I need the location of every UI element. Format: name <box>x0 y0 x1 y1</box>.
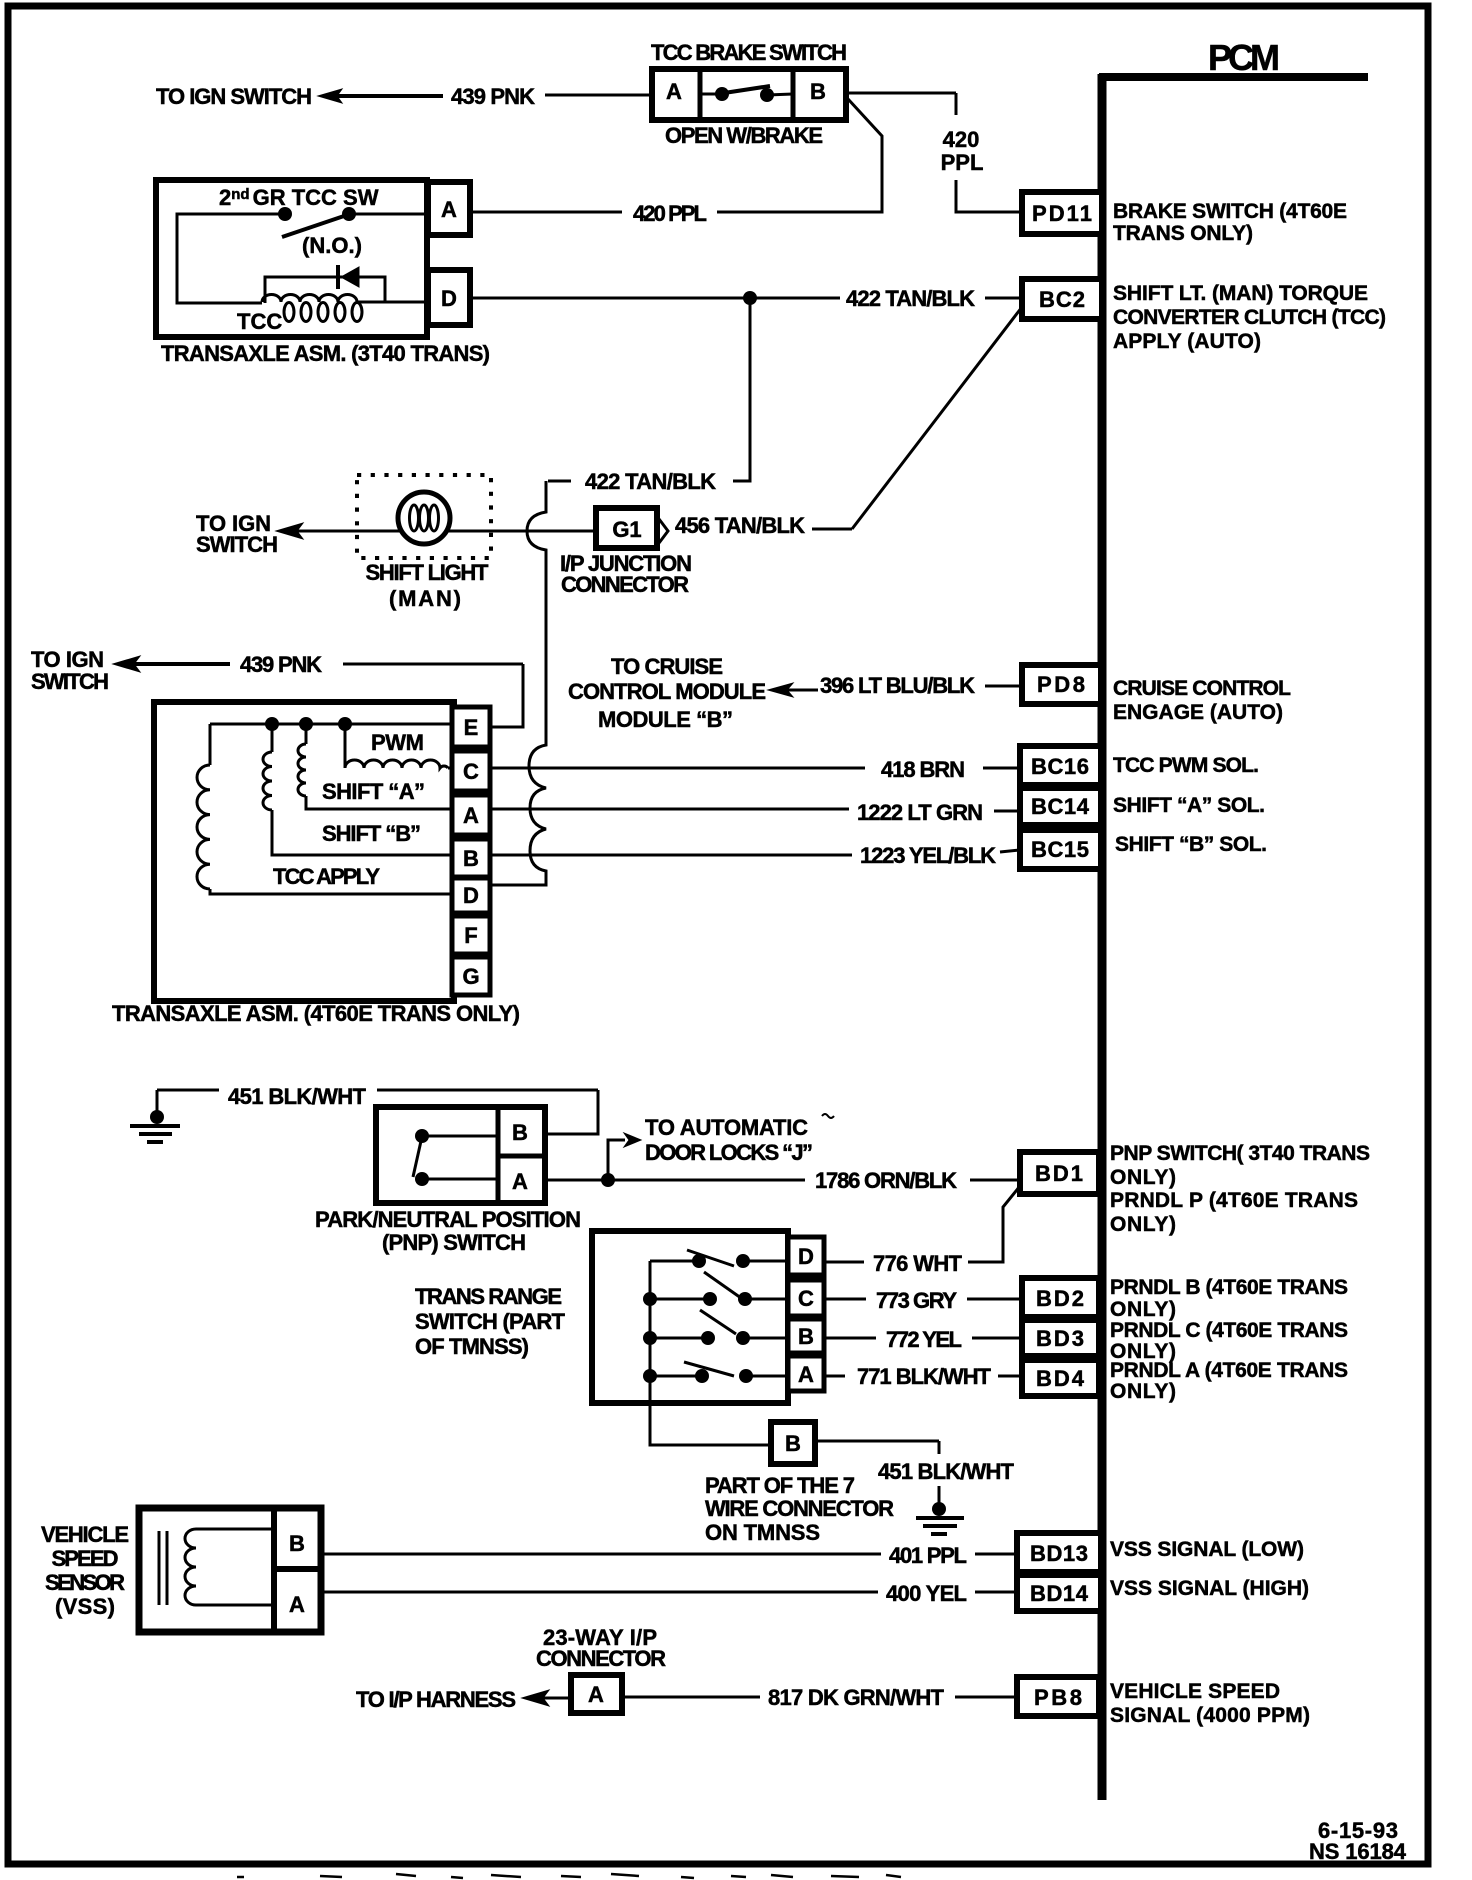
svg-text:BD2: BD2 <box>1036 1286 1084 1311</box>
inductor SHIFT A solenoid (right coil) <box>298 724 452 809</box>
svg-text:PWM: PWM <box>371 730 424 755</box>
svg-text:ENGAGE (AUTO): ENGAGE (AUTO) <box>1113 701 1283 724</box>
svg-text:BC16: BC16 <box>1031 754 1089 779</box>
svg-text:PARK/NEUTRAL POSITION: PARK/NEUTRAL POSITION <box>315 1207 581 1232</box>
svg-text:451 BLK/WHT: 451 BLK/WHT <box>228 1084 367 1109</box>
svg-text:TRANS ONLY): TRANS ONLY) <box>1113 222 1253 245</box>
ground G401 (left) <box>130 1090 180 1142</box>
svg-text:PART OF THE 7: PART OF THE 7 <box>705 1473 855 1498</box>
diode D1 (across TCC solenoid) <box>265 265 385 303</box>
junction dot door locks branch <box>601 1173 615 1187</box>
svg-text:ON TMNSS: ON TMNSS <box>705 1520 820 1545</box>
label 422 TAN/BLK (upper) <box>846 286 975 311</box>
component 4T60E transaxle solenoid block <box>154 702 454 1001</box>
svg-text:SPEED: SPEED <box>52 1546 119 1571</box>
wire 1223 YEL/BLK pin B to BC15 <box>490 850 1020 855</box>
switch PNP park/neutral position <box>376 1107 545 1203</box>
svg-text:420: 420 <box>943 127 980 152</box>
svg-text:BD13: BD13 <box>1030 1541 1088 1566</box>
connector pin BC2 <box>1022 279 1102 319</box>
svg-text:C: C <box>463 759 479 784</box>
wire 817 DK GRN/WHT to PB8 <box>622 1696 1017 1699</box>
svg-text:771 BLK/WHT: 771 BLK/WHT <box>857 1364 992 1389</box>
connector G1 I/P junction <box>596 508 668 548</box>
label 451 BLK/WHT (lower) <box>878 1459 1015 1484</box>
svg-text:SWITCH (PART: SWITCH (PART <box>415 1309 566 1334</box>
label 400 YEL <box>886 1581 967 1606</box>
wire 400 YEL VSS pin A to BD14 <box>321 1591 1017 1594</box>
label VEHICLE SPEED SENSOR (VSS) <box>41 1522 129 1619</box>
label PNP SWITCH / PRNDL P <box>1110 1142 1370 1236</box>
svg-text:DOOR LOCKS “J”: DOOR LOCKS “J” <box>645 1140 813 1165</box>
label 439 PNK (middle) <box>240 652 322 677</box>
ground G402 (lower) <box>916 1502 964 1534</box>
svg-text:WIRE CONNECTOR: WIRE CONNECTOR <box>705 1496 894 1521</box>
svg-text:400 YEL: 400 YEL <box>886 1581 967 1606</box>
svg-text:1222 LT GRN: 1222 LT GRN <box>857 800 983 825</box>
label 456 TAN/BLK <box>675 513 805 538</box>
connector pin BC14 <box>1020 788 1101 825</box>
switch S1 TCC BRAKE SWITCH <box>651 40 847 148</box>
svg-text:BD3: BD3 <box>1036 1326 1084 1351</box>
label BRAKE SWITCH (4T60E TRANS ONLY) <box>1113 200 1347 245</box>
connector pin A (3T40) <box>428 182 470 235</box>
label PRNDL B / PRNDL C / PRNDL A <box>1110 1276 1348 1403</box>
svg-text:A: A <box>798 1362 814 1387</box>
junction dots on rail <box>265 717 352 731</box>
connector pin A (TMNSS) <box>788 1356 824 1391</box>
svg-text:TRANSAXLE ASM. (4T60E TRANS ON: TRANSAXLE ASM. (4T60E TRANS ONLY) <box>112 1001 520 1026</box>
lamp shift light bulb <box>398 492 450 544</box>
label 420 PPL (pin A wire) <box>633 201 707 226</box>
svg-text:OPEN W/BRAKE: OPEN W/BRAKE <box>665 123 823 148</box>
wire shift light feed with arrow <box>276 523 596 539</box>
label TO IGN SWITCH (shift light) <box>196 511 278 557</box>
connector pin A (4T60E) <box>452 795 490 835</box>
svg-text:NS 16184: NS 16184 <box>1309 1839 1407 1864</box>
label VEHICLE SPEED SIGNAL (4000 PPM) <box>1110 1680 1310 1727</box>
label PARK/NEUTRAL POSITION (PNP) SWITCH <box>315 1207 581 1255</box>
svg-text:439 PNK: 439 PNK <box>451 84 535 109</box>
connector pin C (4T60E) <box>452 751 490 791</box>
label TO I/P HARNESS <box>356 1687 516 1712</box>
label TO CRUISE CONTROL MODULE MODULE B <box>568 654 766 732</box>
connector pin BC16 <box>1020 746 1101 785</box>
svg-text:776 WHT: 776 WHT <box>873 1251 963 1276</box>
connector pin BD13 <box>1017 1533 1101 1572</box>
wire 776 WHT from pin D <box>824 1261 983 1264</box>
wire 422 TAN/BLK from pin D to BC2 <box>470 297 1022 300</box>
connector pin BC15 <box>1020 830 1101 869</box>
svg-text:ONLY): ONLY) <box>1110 1380 1176 1403</box>
connector pin C (TMNSS) <box>788 1280 824 1316</box>
svg-text:TCC BRAKE SWITCH: TCC BRAKE SWITCH <box>651 40 847 65</box>
svg-text:B: B <box>289 1531 305 1556</box>
svg-text:1786 ORN/BLK: 1786 ORN/BLK <box>815 1168 957 1193</box>
connector pin B (TMNSS) <box>788 1319 824 1353</box>
svg-text:C: C <box>798 1286 814 1311</box>
svg-text:817 DK GRN/WHT: 817 DK GRN/WHT <box>768 1685 945 1710</box>
svg-text:CONNECTOR: CONNECTOR <box>561 572 689 597</box>
svg-text:CRUISE CONTROL: CRUISE CONTROL <box>1113 677 1291 700</box>
wire 776 WHT to BD1 via diagonal <box>983 1186 1020 1262</box>
svg-text:D: D <box>798 1244 814 1269</box>
svg-text:422 TAN/BLK: 422 TAN/BLK <box>585 469 716 494</box>
svg-text:VSS SIGNAL (LOW): VSS SIGNAL (LOW) <box>1110 1538 1304 1561</box>
label SHIFT LIGHT (MAN) <box>366 560 490 611</box>
label 772 YEL <box>886 1327 962 1352</box>
svg-text:TCC APPLY: TCC APPLY <box>273 864 380 889</box>
svg-text:PRNDL B (4T60E TRANS: PRNDL B (4T60E TRANS <box>1110 1276 1348 1299</box>
svg-text:VEHICLE: VEHICLE <box>41 1522 129 1547</box>
svg-text:396 LT BLU/BLK: 396 LT BLU/BLK <box>820 673 975 698</box>
svg-text:SWITCH: SWITCH <box>196 532 278 557</box>
svg-text:BC2: BC2 <box>1039 287 1085 312</box>
label TO AUTOMATIC DOOR LOCKS J <box>645 1114 834 1165</box>
svg-text:G1: G1 <box>612 517 641 542</box>
label PART OF THE 7 WIRE CONNECTOR ON TMNSS <box>705 1473 894 1545</box>
wire 773 GRY from pin C to BD2 <box>824 1298 1022 1301</box>
svg-text:(VSS): (VSS) <box>55 1594 115 1619</box>
svg-text:451 BLK/WHT: 451 BLK/WHT <box>878 1459 1015 1484</box>
PCM top line <box>1099 73 1368 81</box>
wire 772 YEL from pin B to BD3 <box>824 1337 1022 1340</box>
component VSS vehicle speed sensor <box>139 1508 321 1632</box>
junction dots on TMNSS bus <box>643 1292 657 1383</box>
label 439 PNK (top) <box>451 84 535 109</box>
switch row B contacts <box>650 1310 788 1345</box>
wire branch to automatic door locks with arrow <box>608 1133 641 1180</box>
svg-text:SWITCH: SWITCH <box>31 669 109 694</box>
connector pin BD1 <box>1020 1152 1099 1194</box>
PCM left vertical bus line <box>1098 74 1107 1800</box>
svg-text:BC14: BC14 <box>1031 794 1090 819</box>
svg-text:ONLY): ONLY) <box>1110 1298 1176 1321</box>
svg-text:ONLY): ONLY) <box>1110 1166 1176 1189</box>
svg-text:A: A <box>289 1592 305 1617</box>
svg-text:(N.O.): (N.O.) <box>302 233 362 258</box>
wire 420 PPL from pin A to junction <box>470 211 882 214</box>
label TRANS RANGE SWITCH (PART OF TMNSS) <box>415 1284 566 1359</box>
svg-text:ONLY): ONLY) <box>1110 1213 1176 1236</box>
svg-text:SHIFT “B”: SHIFT “B” <box>322 821 421 846</box>
svg-text:SHIFT “B” SOL.: SHIFT “B” SOL. <box>1115 833 1267 856</box>
connector pin PD8 <box>1022 665 1101 704</box>
connector pin BD14 <box>1017 1575 1101 1611</box>
label 420 PPL (vertical wire) <box>941 127 984 175</box>
label 451 BLK/WHT (upper) <box>228 1084 367 1109</box>
svg-text:456 TAN/BLK: 456 TAN/BLK <box>675 513 805 538</box>
label 817 DK GRN/WHT <box>768 1685 945 1710</box>
connector pin D (4T60E) <box>452 878 490 913</box>
label CRUISE CONTROL ENGAGE (AUTO) <box>1113 677 1291 724</box>
switch row C contacts <box>650 1272 788 1306</box>
svg-text:VEHICLE SPEED: VEHICLE SPEED <box>1110 1680 1280 1703</box>
junction dot 422 TAN/BLK <box>743 291 757 305</box>
svg-text:772 YEL: 772 YEL <box>886 1327 962 1352</box>
wire 439 PNK feed to 4T60E pin E <box>113 656 523 727</box>
label TCC PWM SOL. <box>1113 754 1259 777</box>
svg-text:773 GRY: 773 GRY <box>876 1288 957 1313</box>
connector pin B (4T60E) <box>452 839 490 877</box>
label I/P JUNCTION CONNECTOR <box>560 551 692 597</box>
inductor TCC solenoid coil (3T40) <box>237 295 428 334</box>
inductor TCC APPLY solenoid (left coil) <box>197 724 452 894</box>
label VSS SIGNAL (HIGH) <box>1110 1577 1309 1600</box>
svg-text:A: A <box>588 1682 604 1707</box>
svg-text:CONTROL MODULE: CONTROL MODULE <box>568 679 766 704</box>
connector pin B (7-wire TMNSS connector) <box>771 1422 815 1464</box>
svg-text:B: B <box>512 1120 528 1145</box>
svg-text:G: G <box>462 964 479 989</box>
svg-text:PCM: PCM <box>1208 37 1280 78</box>
label date 6-15-93 <box>1318 1818 1398 1843</box>
switch contacts 2nd GR TCC SW <box>278 207 362 258</box>
label 1222 LT GRN <box>857 800 983 825</box>
svg-text:SIGNAL (4000 PPM): SIGNAL (4000 PPM) <box>1110 1704 1310 1727</box>
svg-text:BD1: BD1 <box>1035 1161 1083 1186</box>
svg-text:PPL: PPL <box>941 150 984 175</box>
svg-text:401 PPL: 401 PPL <box>889 1543 967 1568</box>
svg-text:418 BRN: 418 BRN <box>881 757 965 782</box>
svg-text:BD14: BD14 <box>1030 1581 1089 1606</box>
dashed box shift light (instrument cluster) <box>357 475 491 558</box>
wire 422 TAN/BLK vertical with crossover hops <box>490 481 546 885</box>
svg-text:A: A <box>512 1169 528 1194</box>
svg-text:TO I/P HARNESS: TO I/P HARNESS <box>356 1687 516 1712</box>
wire 422 TAN/BLK branch down to shift light net <box>548 298 750 481</box>
svg-text:(MAN): (MAN) <box>389 586 461 611</box>
wire to I/P harness with arrow <box>522 1690 571 1706</box>
label TRANSAXLE ASM. (4T60E TRANS ONLY) <box>112 1001 520 1026</box>
label 773 GRY <box>876 1288 957 1313</box>
svg-text:A: A <box>666 79 682 104</box>
svg-text:PNP SWITCH( 3T40 TRANS: PNP SWITCH( 3T40 TRANS <box>1110 1142 1370 1165</box>
svg-text:MODULE “B”: MODULE “B” <box>598 707 733 732</box>
svg-text:PRNDL P (4T60E TRANS: PRNDL P (4T60E TRANS <box>1110 1189 1358 1212</box>
component trans range switch (TMNSS) <box>592 1231 788 1403</box>
svg-text:CONVERTER CLUTCH (TCC): CONVERTER CLUTCH (TCC) <box>1113 306 1386 329</box>
svg-text:420 PPL: 420 PPL <box>633 201 707 226</box>
wire 418 BRN pin C to BC16 <box>490 767 1020 770</box>
label 401 PPL <box>889 1543 967 1568</box>
label VSS SIGNAL (LOW) <box>1110 1538 1304 1561</box>
svg-text:BD4: BD4 <box>1036 1366 1085 1391</box>
wire 1786 ORN/BLK pin A to BD1 <box>545 1179 1020 1182</box>
wire feed rail inside 4T60E <box>210 723 452 726</box>
cropped caption fragments below border <box>237 1874 901 1878</box>
switch row D contacts <box>650 1250 788 1268</box>
label TO IGN SWITCH (top) <box>156 84 312 109</box>
magnet core lines VSS <box>159 1531 167 1605</box>
label 771 BLK/WHT <box>857 1364 992 1389</box>
svg-text:A: A <box>441 197 457 222</box>
svg-text:BRAKE SWITCH (4T60E: BRAKE SWITCH (4T60E <box>1113 200 1347 223</box>
svg-text:439 PNK: 439 PNK <box>240 652 322 677</box>
svg-text:TCC: TCC <box>237 309 282 334</box>
svg-text:TRANSAXLE ASM. (3T40 TRANS): TRANSAXLE ASM. (3T40 TRANS) <box>161 341 490 366</box>
component 2nd GR TCC SW / TCC solenoid (3T40 transaxle) <box>156 180 427 337</box>
connector pin PB8 <box>1017 1677 1099 1716</box>
connector pin G (4T60E) <box>452 957 490 995</box>
wire 451 BLK/WHT to PNP pin B <box>157 1090 598 1134</box>
svg-text:B: B <box>785 1431 801 1456</box>
svg-text:SHIFT LIGHT: SHIFT LIGHT <box>366 560 490 585</box>
label SHIFT A SOL. <box>1113 794 1265 817</box>
PCM label <box>1208 37 1280 78</box>
svg-text:APPLY (AUTO): APPLY (AUTO) <box>1113 330 1261 353</box>
label 422 TAN/BLK (lower) <box>585 469 716 494</box>
svg-text:(PNP) SWITCH: (PNP) SWITCH <box>382 1230 526 1255</box>
wire 396 LT BLU/BLK with arrow <box>768 683 1022 697</box>
svg-text:PRNDL A (4T60E TRANS: PRNDL A (4T60E TRANS <box>1110 1359 1348 1382</box>
svg-text:D: D <box>441 286 457 311</box>
svg-text:B: B <box>463 846 479 871</box>
wire diagonal from brake switch B down to 420 PPL run <box>840 99 882 212</box>
label 776 WHT <box>873 1251 963 1276</box>
svg-text:BC15: BC15 <box>1031 837 1089 862</box>
connector pin E (4T60E) <box>452 707 490 747</box>
connector pin PD11 <box>1022 192 1102 234</box>
svg-text:PD11: PD11 <box>1032 201 1092 226</box>
connector pin D (3T40) <box>428 270 470 325</box>
svg-text:PRNDL C (4T60E TRANS: PRNDL C (4T60E TRANS <box>1110 1319 1348 1342</box>
svg-text:TO IGN SWITCH: TO IGN SWITCH <box>156 84 312 109</box>
svg-text:D: D <box>463 883 479 908</box>
inductor SHIFT B solenoid (middle coil) <box>263 724 452 855</box>
label 396 LT BLU/BLK <box>820 673 975 698</box>
label NS 16184 <box>1309 1839 1407 1864</box>
label 1786 ORN/BLK <box>815 1168 957 1193</box>
svg-text:B: B <box>798 1324 814 1349</box>
connector pin BD4 <box>1022 1360 1099 1396</box>
wire 771 BLK/WHT from pin A to BD4 <box>824 1375 1022 1378</box>
connector pin A (23-way I/P) <box>571 1675 622 1713</box>
svg-text:A: A <box>463 803 479 828</box>
connector pin F (4T60E) <box>452 916 490 954</box>
wire 456 TAN/BLK diagonal to BC2 <box>812 307 1022 529</box>
svg-text:SENSOR: SENSOR <box>45 1570 125 1595</box>
svg-text:SHIFT “A” SOL.: SHIFT “A” SOL. <box>1113 794 1265 817</box>
label 1223 YEL/BLK <box>860 843 996 868</box>
wire 2nd GR switch to pin A <box>349 213 428 216</box>
connector pin BD2 <box>1022 1278 1099 1317</box>
svg-text:TRANS RANGE: TRANS RANGE <box>415 1284 562 1309</box>
svg-text:SHIFT “A”: SHIFT “A” <box>322 779 425 804</box>
svg-text:SHIFT LT. (MAN) TORQUE: SHIFT LT. (MAN) TORQUE <box>1113 282 1368 305</box>
label 23-WAY I/P CONNECTOR <box>536 1625 666 1671</box>
inductor VSS pickup coil <box>185 1529 274 1605</box>
label TO IGN SWITCH (439 PNK middle) <box>31 647 109 694</box>
svg-text:TCC PWM SOL.: TCC PWM SOL. <box>1113 754 1259 777</box>
svg-text:CONNECTOR: CONNECTOR <box>536 1646 666 1671</box>
label SHIFT B SOL. <box>1115 833 1267 856</box>
connector pin BD3 <box>1022 1320 1099 1356</box>
wire 401 PPL VSS pin B to BD13 <box>321 1553 1017 1556</box>
svg-text:F: F <box>464 923 477 948</box>
wire ground bus inside TMNSS <box>650 1261 771 1445</box>
label SHIFT LT. (MAN) TORQUE CONVERTER CLUTCH (TCC) APPLY (AUTO) <box>1113 282 1386 353</box>
wire 439 PNK to ign switch (top) <box>318 89 652 103</box>
svg-text:E: E <box>464 715 479 740</box>
svg-text:VSS SIGNAL (HIGH): VSS SIGNAL (HIGH) <box>1110 1577 1309 1600</box>
inductor TCC PWM solenoid (horizontal coil) <box>345 724 452 768</box>
wire left loop inside 3T40 box <box>177 214 285 303</box>
label TRANSAXLE ASM. (3T40 TRANS) <box>161 341 490 366</box>
connector pin D (TMNSS) <box>788 1237 824 1275</box>
label 418 BRN <box>881 757 965 782</box>
svg-text:TO AUTOMATIC: TO AUTOMATIC <box>645 1115 808 1140</box>
svg-text:1223 YEL/BLK: 1223 YEL/BLK <box>860 843 996 868</box>
svg-text:TO CRUISE: TO CRUISE <box>611 654 723 679</box>
svg-text:PB8: PB8 <box>1034 1685 1082 1710</box>
svg-text:PD8: PD8 <box>1037 672 1085 697</box>
wire 1222 LT GRN pin A to BC14 <box>490 809 1020 811</box>
svg-text:422 TAN/BLK: 422 TAN/BLK <box>846 286 975 311</box>
wire 420 PPL from brake switch B to PD11 <box>846 93 1022 212</box>
wire 451 BLK/WHT to ground (lower) <box>815 1441 939 1504</box>
svg-text:B: B <box>810 79 826 104</box>
svg-text:OF TMNSS): OF TMNSS) <box>415 1334 529 1359</box>
switch row A contacts <box>650 1362 788 1383</box>
